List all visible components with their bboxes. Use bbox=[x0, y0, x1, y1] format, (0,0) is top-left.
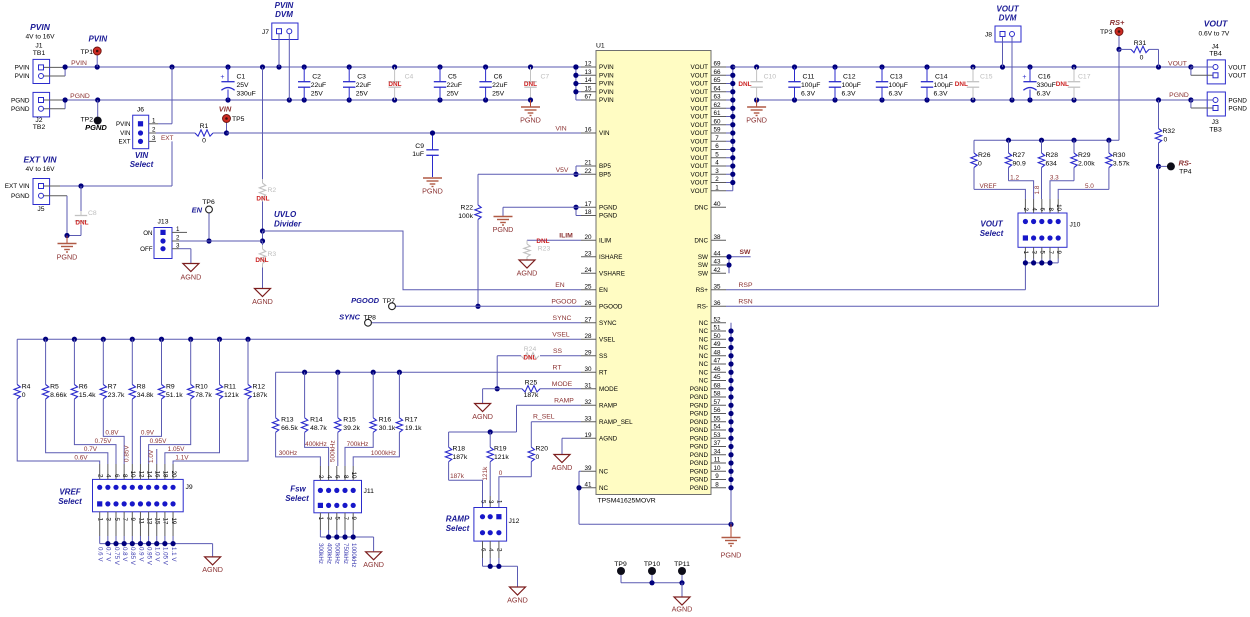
svg-text:C6: C6 bbox=[494, 74, 503, 81]
pin 32 RAMP left bbox=[581, 399, 617, 410]
pin 53 PGND right bbox=[690, 432, 726, 443]
svg-text:121k: 121k bbox=[224, 392, 239, 399]
svg-text:0.8 V: 0.8 V bbox=[121, 547, 128, 562]
pin 21 BP5 left bbox=[581, 160, 611, 171]
svg-text:1: 1 bbox=[176, 226, 180, 233]
svg-text:PVIN: PVIN bbox=[599, 64, 614, 71]
svg-text:1.8: 1.8 bbox=[1034, 185, 1041, 194]
svg-text:R28: R28 bbox=[1046, 152, 1059, 159]
wire R18 to J12 pin5 bbox=[449, 473, 483, 508]
svg-text:TPSM41625MOVR: TPSM41625MOVR bbox=[598, 498, 656, 505]
svg-text:RS-: RS- bbox=[697, 303, 708, 310]
pin 4 VOUT right bbox=[691, 160, 727, 171]
svg-text:187k: 187k bbox=[524, 392, 539, 399]
svg-text:2: 2 bbox=[1022, 208, 1029, 212]
ground PGND at pins 17 18 bbox=[493, 217, 514, 235]
svg-text:3: 3 bbox=[152, 135, 156, 142]
svg-text:R_SEL: R_SEL bbox=[533, 413, 555, 420]
pin 30 RT left bbox=[581, 366, 607, 377]
svg-text:12: 12 bbox=[584, 61, 592, 68]
svg-text:8: 8 bbox=[715, 481, 719, 488]
svg-text:6.3V: 6.3V bbox=[934, 91, 948, 98]
svg-text:700kHz: 700kHz bbox=[347, 441, 369, 448]
svg-text:0: 0 bbox=[1140, 55, 1144, 62]
svg-text:VOUT: VOUT bbox=[691, 97, 709, 104]
svg-text:44: 44 bbox=[713, 250, 721, 257]
svg-text:R9: R9 bbox=[166, 384, 175, 391]
svg-text:RAMP: RAMP bbox=[446, 515, 470, 524]
wire RAMP_SEL bbox=[531, 413, 581, 447]
resistor R12 187k bbox=[245, 339, 268, 399]
svg-text:55: 55 bbox=[713, 415, 721, 422]
pin 41 NC left bbox=[581, 481, 609, 492]
svg-text:VOUT: VOUT bbox=[691, 147, 709, 154]
svg-text:BP5: BP5 bbox=[599, 171, 611, 178]
svg-text:C14: C14 bbox=[935, 74, 948, 81]
svg-text:10: 10 bbox=[713, 465, 721, 472]
pin 26 PGOOD left bbox=[581, 300, 623, 311]
wire R6 to J9 pin 6 bbox=[74, 399, 116, 464]
wire EXT VIN to J6 bbox=[78, 141, 172, 188]
test point TP10 bbox=[644, 561, 660, 583]
pin 22 BP5 left bbox=[581, 168, 611, 179]
wire R29 to J10 bbox=[1050, 175, 1074, 200]
svg-text:400kHz: 400kHz bbox=[305, 441, 327, 448]
svg-text:C17: C17 bbox=[1078, 74, 1091, 81]
svg-text:C1: C1 bbox=[237, 74, 246, 81]
svg-text:VOUT: VOUT bbox=[691, 64, 709, 71]
pin 40 DNC right bbox=[694, 201, 726, 212]
wire R15 to J11 pin 6 bbox=[329, 432, 338, 466]
svg-text:C9: C9 bbox=[415, 143, 424, 150]
wire SS down to MODE node bbox=[495, 356, 500, 392]
svg-text:VOUT: VOUT bbox=[691, 122, 709, 129]
capacitor C10 DNL bbox=[738, 67, 776, 100]
svg-text:SYNC: SYNC bbox=[339, 312, 360, 321]
svg-text:VOUT: VOUT bbox=[691, 72, 709, 79]
resistor R15 39.2k bbox=[335, 372, 361, 432]
svg-text:2: 2 bbox=[715, 176, 719, 183]
svg-text:10: 10 bbox=[129, 471, 136, 478]
svg-text:TP10: TP10 bbox=[644, 561, 660, 568]
svg-text:PGND: PGND bbox=[1228, 97, 1247, 104]
capacitor C3 22uF bbox=[343, 67, 371, 100]
svg-text:0.6 V: 0.6 V bbox=[97, 547, 104, 562]
svg-text:3.57k: 3.57k bbox=[1113, 161, 1130, 168]
svg-text:1000kHz: 1000kHz bbox=[350, 543, 357, 567]
svg-text:0.7V: 0.7V bbox=[84, 446, 98, 453]
wire J13 pin2 to EN node bbox=[179, 240, 263, 242]
capacitor C4 DNL bbox=[388, 67, 413, 100]
svg-text:1: 1 bbox=[715, 184, 719, 191]
svg-text:58: 58 bbox=[713, 391, 721, 398]
wire R9 to J9 pin 12 bbox=[140, 399, 161, 464]
svg-text:RSP: RSP bbox=[739, 282, 753, 289]
svg-text:+: + bbox=[220, 74, 224, 81]
svg-text:J4: J4 bbox=[1212, 44, 1219, 51]
svg-text:PGND: PGND bbox=[57, 253, 78, 262]
svg-text:RAMP_SEL: RAMP_SEL bbox=[599, 419, 633, 426]
wire PGND pins 17 18 bbox=[503, 205, 581, 216]
capacitor C15 DNL bbox=[955, 67, 993, 100]
resistor R24 DNL on SS bbox=[497, 346, 581, 362]
svg-text:J12: J12 bbox=[509, 518, 520, 525]
wire J12 bottom bus to AGND bbox=[483, 564, 518, 587]
svg-text:33: 33 bbox=[584, 415, 592, 422]
svg-text:8: 8 bbox=[1047, 208, 1054, 212]
svg-text:AGND: AGND bbox=[252, 297, 273, 306]
ground PGND below J5 bbox=[57, 236, 78, 262]
resistor R17 19.1k bbox=[396, 372, 422, 432]
svg-text:ILIM: ILIM bbox=[559, 233, 573, 240]
pin 1 VOUT right bbox=[691, 184, 727, 195]
wire R28 to J10 bbox=[1034, 185, 1041, 194]
svg-text:400kHz: 400kHz bbox=[325, 543, 332, 564]
svg-text:100µF: 100µF bbox=[934, 82, 953, 89]
svg-text:R18: R18 bbox=[453, 446, 466, 453]
svg-text:SW: SW bbox=[698, 262, 708, 269]
svg-text:TB3: TB3 bbox=[1209, 127, 1222, 134]
svg-text:PGND: PGND bbox=[85, 123, 107, 132]
svg-text:1.0 V: 1.0 V bbox=[154, 547, 161, 562]
svg-text:DNC: DNC bbox=[694, 237, 708, 244]
svg-text:R14: R14 bbox=[310, 417, 323, 424]
svg-text:PVIN: PVIN bbox=[116, 121, 130, 128]
svg-text:2: 2 bbox=[317, 475, 324, 479]
ground AGND at MODE bbox=[472, 389, 493, 421]
svg-text:62: 62 bbox=[713, 102, 721, 109]
svg-text:PGND: PGND bbox=[690, 485, 709, 492]
svg-text:J1: J1 bbox=[35, 43, 42, 50]
svg-text:AGND: AGND bbox=[672, 605, 693, 614]
wire R4 to J9 pin 2 bbox=[17, 399, 100, 464]
wire J11 odd bus to AGND bbox=[320, 534, 373, 551]
wire R20 to J12 pin1 bbox=[499, 470, 532, 508]
svg-text:0.8V: 0.8V bbox=[105, 430, 119, 437]
svg-text:25V: 25V bbox=[356, 91, 369, 98]
wire J9 pin16 1.0V stub bbox=[148, 449, 157, 464]
pin 8 PGND right bbox=[690, 481, 726, 492]
svg-text:68: 68 bbox=[713, 382, 721, 389]
connector J3 TB3 PGND bbox=[1191, 92, 1247, 134]
wire TP9-TP11 bus bbox=[621, 580, 685, 596]
svg-text:VIN: VIN bbox=[599, 130, 610, 137]
svg-text:AGND: AGND bbox=[517, 269, 538, 278]
svg-text:8: 8 bbox=[121, 474, 128, 478]
svg-text:AGND: AGND bbox=[472, 412, 493, 421]
svg-text:24: 24 bbox=[584, 267, 592, 274]
wire J6 pin1 to PVIN rail bbox=[158, 67, 172, 124]
svg-text:750kHz: 750kHz bbox=[342, 543, 349, 564]
svg-text:100µF: 100µF bbox=[801, 82, 820, 89]
resistor R22 100k bbox=[458, 174, 481, 309]
svg-text:R3: R3 bbox=[268, 251, 277, 258]
svg-text:VOUT: VOUT bbox=[691, 130, 709, 137]
ground AGND at pin 19 bbox=[552, 455, 573, 473]
svg-text:AGND: AGND bbox=[202, 565, 223, 574]
pin 69 VOUT right bbox=[691, 61, 727, 72]
svg-text:R25: R25 bbox=[525, 379, 538, 386]
svg-text:6: 6 bbox=[113, 474, 120, 478]
svg-text:1.05 V: 1.05 V bbox=[162, 547, 169, 566]
ground PGND at C10 bbox=[746, 100, 767, 125]
svg-text:6: 6 bbox=[334, 475, 341, 479]
wire RSN to pin 36 bbox=[726, 166, 1159, 306]
svg-text:VOUT: VOUT bbox=[980, 220, 1003, 229]
svg-text:100µF: 100µF bbox=[842, 82, 861, 89]
svg-text:46: 46 bbox=[713, 366, 721, 373]
resistor R14 48.7k bbox=[301, 372, 327, 432]
svg-text:25V: 25V bbox=[447, 91, 460, 98]
svg-text:PGND: PGND bbox=[690, 452, 709, 459]
svg-text:C12: C12 bbox=[843, 74, 856, 81]
svg-text:0.75 V: 0.75 V bbox=[113, 547, 120, 566]
svg-text:TP11: TP11 bbox=[674, 561, 690, 568]
capacitor C17 DNL bbox=[1056, 67, 1091, 100]
svg-text:0.6V to 7V: 0.6V to 7V bbox=[1199, 30, 1230, 37]
svg-text:VIN: VIN bbox=[135, 151, 149, 160]
header J12 RAMP Select bbox=[446, 500, 520, 566]
svg-text:AGND: AGND bbox=[507, 596, 528, 605]
svg-text:1.2: 1.2 bbox=[1010, 175, 1019, 182]
svg-text:21: 21 bbox=[584, 160, 592, 167]
svg-text:100k: 100k bbox=[458, 213, 473, 220]
svg-text:28: 28 bbox=[584, 333, 592, 340]
ground AGND below R3 bbox=[252, 289, 273, 307]
svg-text:PVIN: PVIN bbox=[15, 73, 30, 80]
svg-text:39: 39 bbox=[584, 465, 592, 472]
svg-text:AGND: AGND bbox=[599, 435, 618, 442]
svg-text:R13: R13 bbox=[281, 417, 294, 424]
pin 36 RS- right bbox=[697, 300, 726, 311]
svg-text:J9: J9 bbox=[186, 484, 193, 491]
svg-text:25V: 25V bbox=[311, 91, 324, 98]
svg-text:MODE: MODE bbox=[599, 386, 618, 393]
svg-text:NC: NC bbox=[699, 353, 709, 360]
svg-text:J10: J10 bbox=[1070, 222, 1081, 229]
pin 16 VIN left bbox=[581, 127, 610, 138]
header J6 VIN Select bbox=[116, 107, 158, 170]
wire R12 to J9 pin 20 bbox=[173, 399, 248, 464]
svg-text:PVIN: PVIN bbox=[71, 60, 87, 67]
wire J7 pin1 to PVIN bbox=[278, 34, 280, 67]
svg-text:TP5: TP5 bbox=[232, 116, 245, 123]
wire R30 to J10 bbox=[1058, 183, 1109, 199]
ground PGND at C9 bbox=[422, 178, 443, 196]
header J8 VOUT DVM bbox=[985, 5, 1021, 43]
svg-text:48.7k: 48.7k bbox=[310, 425, 327, 432]
capacitor C9 1uF bbox=[412, 130, 438, 177]
svg-text:R4: R4 bbox=[22, 384, 31, 391]
svg-text:300kHz: 300kHz bbox=[317, 543, 324, 564]
net label VOUT bbox=[1168, 60, 1187, 67]
test point TP7 PGOOD bbox=[351, 296, 581, 310]
pin 60 VOUT right bbox=[691, 118, 727, 129]
resistor R13 66.5k bbox=[272, 372, 298, 432]
pin 66 VOUT right bbox=[691, 69, 727, 80]
wire J8 pin2 to PGND bbox=[1011, 37, 1013, 100]
svg-text:25V: 25V bbox=[237, 82, 250, 89]
resistor R6 15.4k bbox=[71, 339, 96, 399]
svg-text:2.00k: 2.00k bbox=[1078, 161, 1095, 168]
svg-text:DNL: DNL bbox=[256, 196, 269, 203]
resistor R31 0 bbox=[1119, 40, 1159, 67]
svg-text:6: 6 bbox=[715, 143, 719, 150]
svg-text:90.9: 90.9 bbox=[1013, 161, 1026, 168]
svg-text:20: 20 bbox=[170, 471, 177, 478]
pin 37 PGND right bbox=[690, 440, 726, 451]
wire J9 odd bus to AGND bbox=[100, 541, 213, 556]
ground AGND at TP11 bbox=[672, 597, 693, 614]
test point TP6 EN bbox=[192, 199, 215, 244]
test point TP3 RS+ bbox=[1100, 18, 1125, 52]
svg-text:30.1k: 30.1k bbox=[379, 425, 396, 432]
svg-text:PGND: PGND bbox=[690, 419, 709, 426]
wire RSP to J10 bbox=[726, 263, 1025, 290]
capacitor C2 22uF bbox=[298, 67, 326, 100]
svg-text:0.95 V: 0.95 V bbox=[145, 547, 152, 566]
svg-text:6.3V: 6.3V bbox=[842, 91, 856, 98]
svg-text:63: 63 bbox=[713, 94, 721, 101]
svg-text:PVIN: PVIN bbox=[599, 72, 614, 79]
svg-text:DNL: DNL bbox=[955, 81, 968, 88]
svg-text:26: 26 bbox=[584, 300, 592, 307]
pin 19 AGND left bbox=[581, 432, 618, 443]
pin 52 NC right bbox=[699, 316, 726, 327]
pin 38 DNC right bbox=[694, 234, 726, 245]
wire AGND pin 19 bbox=[562, 438, 581, 454]
test point TP2 PGND bbox=[81, 100, 108, 132]
svg-text:DNL: DNL bbox=[75, 220, 88, 227]
svg-text:34: 34 bbox=[713, 448, 721, 455]
svg-text:3: 3 bbox=[487, 500, 494, 504]
svg-text:VREF: VREF bbox=[979, 183, 996, 190]
svg-text:NC: NC bbox=[699, 369, 709, 376]
svg-text:66.5k: 66.5k bbox=[281, 425, 298, 432]
svg-text:50: 50 bbox=[713, 333, 721, 340]
pin 24 VSHARE left bbox=[581, 267, 625, 278]
svg-text:+: + bbox=[1022, 74, 1026, 81]
svg-text:VOUT: VOUT bbox=[1204, 19, 1228, 29]
test point TP4 RS- bbox=[1159, 159, 1192, 176]
resistor R7 23.7k bbox=[100, 339, 125, 399]
svg-text:NC: NC bbox=[699, 361, 709, 368]
svg-text:2: 2 bbox=[97, 474, 104, 478]
svg-text:3.3: 3.3 bbox=[1050, 175, 1059, 182]
svg-text:4V to 16V: 4V to 16V bbox=[26, 166, 56, 173]
annotation J9 voltage labels bbox=[97, 547, 177, 566]
svg-text:Select: Select bbox=[980, 229, 1004, 238]
svg-text:0.95V: 0.95V bbox=[150, 438, 167, 445]
svg-text:34.8k: 34.8k bbox=[137, 392, 154, 399]
svg-text:0: 0 bbox=[536, 454, 540, 461]
svg-text:C5: C5 bbox=[448, 74, 457, 81]
title PVIN input bbox=[26, 22, 56, 41]
svg-text:65: 65 bbox=[713, 77, 721, 84]
svg-text:PGND: PGND bbox=[690, 386, 709, 393]
svg-text:78.7k: 78.7k bbox=[195, 392, 212, 399]
svg-text:PGND: PGND bbox=[690, 427, 709, 434]
svg-text:SW: SW bbox=[740, 249, 752, 256]
net label RT bbox=[553, 364, 562, 371]
svg-text:PGND: PGND bbox=[422, 187, 443, 196]
pin 23 ISHARE left bbox=[581, 250, 622, 261]
svg-text:5: 5 bbox=[479, 500, 486, 504]
svg-text:121k: 121k bbox=[494, 454, 509, 461]
svg-text:J8: J8 bbox=[985, 32, 992, 39]
svg-text:VIN: VIN bbox=[555, 125, 566, 132]
svg-text:PGND: PGND bbox=[70, 93, 90, 100]
svg-text:TB2: TB2 bbox=[33, 124, 46, 131]
svg-text:SW: SW bbox=[698, 254, 708, 261]
resistor R20 0 bbox=[528, 446, 548, 477]
svg-text:31: 31 bbox=[584, 382, 592, 389]
svg-text:PGND: PGND bbox=[690, 477, 709, 484]
svg-text:1.05V: 1.05V bbox=[168, 446, 185, 453]
pin 27 SYNC left bbox=[581, 316, 617, 327]
capacitor C13 100uF bbox=[876, 67, 908, 100]
resistor R23 DNL on ILIM bbox=[524, 233, 581, 260]
svg-text:NC: NC bbox=[699, 320, 709, 327]
svg-text:SS: SS bbox=[599, 353, 607, 360]
svg-text:TB4: TB4 bbox=[1209, 51, 1222, 58]
pin 48 NC right bbox=[699, 349, 726, 360]
svg-text:EN: EN bbox=[599, 287, 608, 294]
pin 46 NC right bbox=[699, 366, 726, 377]
svg-text:DNL: DNL bbox=[523, 354, 536, 361]
pin 64 VOUT right bbox=[691, 85, 727, 96]
svg-text:DVM: DVM bbox=[999, 13, 1017, 22]
svg-text:PGND: PGND bbox=[11, 106, 30, 113]
resistor R11 121k bbox=[216, 339, 239, 399]
svg-text:22uF: 22uF bbox=[356, 82, 372, 89]
svg-text:R26: R26 bbox=[978, 152, 991, 159]
svg-text:VOUT: VOUT bbox=[691, 89, 709, 96]
svg-text:PVIN: PVIN bbox=[599, 81, 614, 88]
svg-text:18: 18 bbox=[584, 209, 592, 216]
svg-text:22uF: 22uF bbox=[492, 82, 508, 89]
svg-text:PGND: PGND bbox=[11, 97, 30, 104]
pin 34 PGND right bbox=[690, 448, 726, 459]
svg-text:47: 47 bbox=[713, 358, 721, 365]
svg-text:R30: R30 bbox=[1113, 152, 1126, 159]
test point TP9 bbox=[614, 561, 627, 583]
wire BP5 V5V bbox=[478, 166, 581, 177]
svg-text:PGOOD: PGOOD bbox=[599, 303, 623, 310]
svg-text:187k: 187k bbox=[450, 473, 465, 480]
svg-text:35: 35 bbox=[713, 283, 721, 290]
svg-text:187k: 187k bbox=[253, 392, 268, 399]
wire RAMP to divider bbox=[517, 397, 582, 432]
wire RT bus bbox=[276, 370, 581, 375]
svg-text:634: 634 bbox=[1046, 161, 1058, 168]
svg-text:R7: R7 bbox=[108, 384, 117, 391]
connector J1 TB1 bbox=[15, 43, 66, 84]
capacitor C14 100uF bbox=[921, 67, 953, 100]
svg-text:32: 32 bbox=[584, 399, 592, 406]
svg-text:R29: R29 bbox=[1078, 152, 1091, 159]
svg-text:C4: C4 bbox=[405, 74, 414, 81]
svg-text:PGND: PGND bbox=[493, 225, 514, 234]
svg-text:DNL: DNL bbox=[738, 81, 751, 88]
svg-text:121k: 121k bbox=[482, 466, 489, 481]
svg-text:43: 43 bbox=[713, 259, 721, 266]
wire NC pins 39 41 bbox=[576, 471, 733, 527]
svg-text:SYNC: SYNC bbox=[553, 315, 572, 322]
svg-text:48: 48 bbox=[713, 349, 721, 356]
svg-text:R32: R32 bbox=[1163, 128, 1176, 135]
net label PGND right bbox=[1169, 92, 1189, 99]
